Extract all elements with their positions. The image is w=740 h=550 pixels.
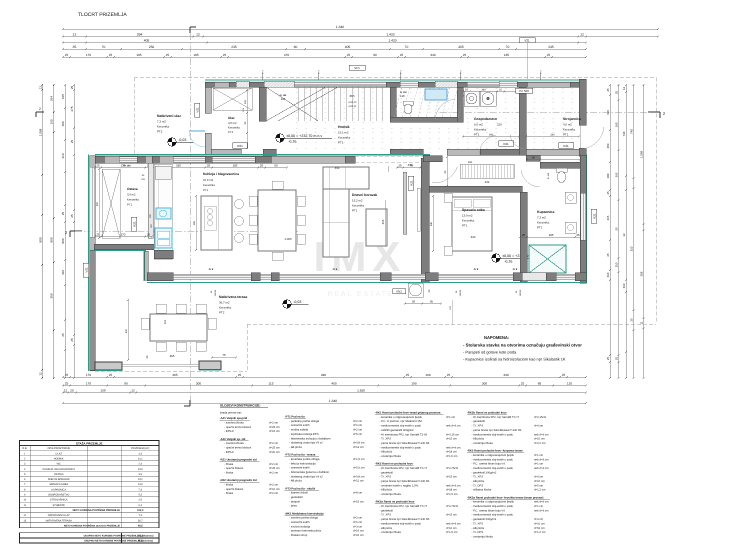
svg-text:25: 25 [260,163,264,167]
svg-text:-RK2 Ravni ne prohodni krov: -RK2 Ravni ne prohodni krov [375,463,413,466]
svg-text:- muštra zaštita: - muštra zaštita [289,429,308,432]
svg-text:- HI membrana FP2, npr Sarnafi: - HI membrana FP2, npr Sarnafil TS 77 [380,467,428,470]
svg-text:Kupaonica: Kupaonica [537,210,554,214]
svg-text:d=20 cm: d=20 cm [269,451,280,454]
svg-text:- završna podna obloga: - završna podna obloga [289,517,318,520]
svg-text:- geotekstil: - geotekstil [380,509,394,512]
svg-text:12: 12 [196,32,200,36]
terrace columns [95,362,122,370]
svg-text:800: 800 [50,237,54,242]
svg-text:- bitumenska izolacija s dodat: - bitumenska izolacija s dodatkom [289,437,331,440]
svg-text:d=2 cm: d=2 cm [353,517,363,520]
svg-text:PT2: PT2 [219,311,225,315]
svg-text:415: 415 [606,215,610,220]
svg-text:K21: K21 [592,213,596,219]
svg-text:6,4: 6,4 [139,504,143,507]
kitchen counter [154,164,172,259]
svg-text:Keramika: Keramika [352,204,365,208]
svg-text:- cementni estrih: - cementni estrih [289,424,310,427]
svg-text:d=5 cm: d=5 cm [353,433,363,436]
svg-text:25: 25 [562,373,566,377]
svg-text:d=2 cm: d=2 cm [353,429,363,432]
svg-text:Kuhinja i blagovaonica: Kuhinja i blagovaonica [203,172,239,176]
svg-text:d=0,15 cm: d=0,15 cm [446,433,460,436]
right dimension chains [609,85,611,378]
svg-text:170: 170 [86,381,91,385]
svg-text:- EPS-F: - EPS-F [224,430,234,433]
svg-text:-MK1 Međukatna konstrukcija: -MK1 Međukatna konstrukcija [285,512,324,515]
terrace table [150,314,207,341]
svg-text:46,5: 46,5 [138,524,143,527]
svg-text:PT1: PT1 [338,141,344,145]
svg-text:1.098: 1.098 [38,128,42,136]
washbasin cabinets [565,192,576,203]
svg-text:d=10 cm: d=10 cm [269,430,280,433]
level mark -0,03 [168,138,176,146]
svg-text:Keramika: Keramika [474,128,487,132]
svg-text:Izrada prema van:: Izrada prema van: [220,412,242,415]
svg-text:205/90: 205/90 [459,289,462,296]
svg-text:PT2: PT2 [228,130,234,134]
svg-text:170: 170 [86,53,91,57]
svg-text:4,5: 4,5 [139,499,143,502]
svg-text:Pn 520: Pn 520 [519,89,529,93]
svg-text:25: 25 [606,253,610,257]
svg-text:75: 75 [222,353,226,357]
ostava dim row [95,236,152,238]
svg-text:d=0,8 cm: d=0,8 cm [353,442,365,445]
west exterior wall [88,155,90,372]
svg-text:d=10 cm: d=10 cm [269,488,280,491]
svg-text:1.630: 1.630 [357,388,365,392]
svg-text:PT1: PT1 [537,226,543,230]
svg-text:- AB ploča: - AB ploča [380,527,393,530]
svg-text:- armirano betonska ploča: - armirano betonska ploča [289,530,321,533]
svg-text:OSTAVA: OSTAVA [54,473,64,476]
svg-text:d=12 cm: d=12 cm [353,446,364,449]
svg-text:300: 300 [482,381,487,385]
bedroom level mark [492,254,500,262]
svg-text:- T.I. XPS: - T.I. XPS [472,425,484,428]
svg-text:400: 400 [331,381,336,385]
svg-text:d=10 cm: d=10 cm [446,527,457,530]
svg-text:-AZ2 Vanjski sp. zid: -AZ2 Vanjski sp. zid [220,438,246,441]
svg-text:305: 305 [458,45,464,49]
svg-text:Dnevni boravak: Dnevni boravak [352,193,377,197]
svg-text:R.B.: R.B. [22,447,27,450]
svg-text:d=2 cm: d=2 cm [269,472,279,475]
svg-text:STUBIŠTE: STUBIŠTE [53,503,66,507]
svg-text:- Parapeti od gotove kote poda: - Parapeti od gotove kote poda [463,350,517,355]
svg-text:TLOCRT PRIZEMLJA: TLOCRT PRIZEMLJA [78,12,127,18]
svg-text:298: 298 [640,271,644,276]
ostava wardrobe X [102,169,120,238]
svg-text:170: 170 [86,373,91,377]
svg-text:d=4 cm: d=4 cm [534,425,544,428]
WC hatch [394,87,402,117]
kitchen island [201,196,232,250]
svg-text:PT1: PT1 [352,209,358,213]
svg-text:25: 25 [61,212,65,216]
svg-text:R21: R21 [237,144,243,148]
svg-text:1.420: 1.420 [386,32,394,36]
svg-text:101: 101 [449,305,452,310]
window tag V21 top [519,38,535,43]
wall spavaca/kupaonica [520,192,527,282]
svg-text:310: 310 [622,283,626,288]
svg-text:d=0,75cm: d=0,75cm [446,467,459,470]
svg-text:410: 410 [61,270,65,275]
svg-text:d=2 cm: d=2 cm [269,442,279,445]
svg-text:- žbuka: - žbuka [224,492,233,495]
svg-text:46,5: 46,5 [138,540,143,543]
svg-text:UKUPNO NETO KORISNE POVRŠINE: UKUPNO NETO KORISNE POVRŠINE PRIZEMLJE (… [84,539,153,543]
svg-text:340: 340 [430,221,433,226]
svg-text:25: 25 [238,373,242,377]
dining chairs [249,196,257,206]
svg-text:d=10 cm: d=10 cm [534,480,545,483]
svg-text:ULAZ: ULAZ [56,452,63,455]
svg-text:d=18 cm: d=18 cm [446,451,457,454]
svg-text:VF1: VF1 [354,66,360,70]
svg-text:190: 190 [606,110,610,115]
svg-text:310: 310 [630,246,634,251]
svg-text:-RK2 Ravni prohodni krov- funy: -RK2 Ravni prohodni krov- funyama terase [467,450,523,453]
svg-text:- T.I. XPS: - T.I. XPS [380,514,392,517]
svg-text:12: 12 [64,388,68,392]
K21 tag right [591,209,597,223]
svg-text:180: 180 [61,121,65,126]
svg-text:Hodnik: Hodnik [338,125,350,129]
svg-text:V21: V21 [84,267,88,273]
svg-text:d=2 cm: d=2 cm [269,483,279,486]
svg-text:Pr 8: Pr 8 [513,268,518,271]
svg-text:25: 25 [65,373,69,377]
top dimension chains [63,28,658,30]
svg-text:- AB ploča: - AB ploča [472,480,485,483]
svg-text:- keramika podna obloga: - keramika podna obloga [289,458,320,461]
svg-text:25: 25 [70,338,74,342]
svg-text:245: 245 [548,45,554,49]
svg-text:4,3: 4,3 [139,452,143,455]
svg-text:d=16 cm: d=16 cm [353,530,364,533]
svg-text:2: 2 [39,107,41,111]
svg-text:+232,02: +232,02 [348,105,357,108]
toilet [556,168,567,172]
svg-text:Keramika: Keramika [157,125,170,129]
svg-text:22,0 m2: 22,0 m2 [203,178,214,182]
section marker 1 top [189,27,191,33]
svg-text:±0,00 = +232,70 m.n.v: ±0,00 = +232,70 m.n.v [286,134,322,138]
oven (blue) [156,208,171,219]
svg-text:-0,03: -0,03 [293,300,301,304]
svg-text:Gospodarstvo: Gospodarstvo [474,117,497,121]
wall chunk west of bedroom hall [423,156,442,162]
east window [581,193,586,240]
svg-text:310: 310 [606,272,610,277]
svg-text:- međucementni sloj-estrih u p: - međucementni sloj-estrih u padu [472,433,514,436]
svg-text:Keramika: Keramika [219,306,232,310]
svg-text:470: 470 [284,53,289,57]
svg-text:250: 250 [149,45,155,49]
svg-text:4,0 m2: 4,0 m2 [228,121,237,125]
svg-text:170: 170 [121,232,126,236]
svg-text:- cementni estrih: - cementni estrih [289,521,310,524]
bedroom door arc [432,167,458,183]
svg-text:25: 25 [398,163,402,167]
mid dividing wall y155 [95,154,430,156]
svg-text:25: 25 [65,381,69,385]
svg-text:800: 800 [61,238,65,243]
svg-text:d=0,15cm: d=0,15cm [534,416,547,419]
svg-text:120: 120 [567,381,572,385]
svg-text:- međucementni sloj-estrih u p: - međucementni sloj-estrih u padu [472,458,514,461]
svg-text:neb d=4 cm: neb d=4 cm [446,522,461,525]
svg-text:- keramika u odgovarajućem lje: - keramika u odgovarajućem ljepilu [472,500,515,504]
svg-text:d=1,2 cm: d=1,2 cm [534,531,546,534]
svg-text:25: 25 [463,53,467,57]
svg-text:- opečni blokovi: - opečni blokovi [224,467,243,470]
svg-text:KUHINJA I BLAGOVAONICA: KUHINJA I BLAGOVAONICA [43,468,76,471]
svg-text:102,3: 102,3 [137,509,144,512]
terrace chairs [156,304,166,313]
svg-text:- unutarnja žbuka: - unutarnja žbuka [472,442,494,445]
svg-text:25: 25 [400,53,404,57]
svg-text:50: 50 [412,299,416,303]
bathroom dim row [520,236,581,238]
svg-text:25: 25 [615,91,619,95]
svg-text:10,1: 10,1 [138,457,143,460]
svg-text:ETAŽA PRIZEMLJE: ETAŽA PRIZEMLJE [76,441,102,445]
svg-text:Pr 6: Pr 6 [333,268,338,271]
svg-text:- međucementni sloj-estrih u p: - međucementni sloj-estrih u padu [380,446,422,449]
svg-text:- žbuka: - žbuka [224,463,233,466]
svg-text:185: 185 [233,163,238,167]
stairs treads [297,86,299,121]
cooktop circles [204,206,216,230]
kitchen dim row below wall [95,167,287,169]
svg-text:- unutarnja žbuka: - unutarnja žbuka [380,531,402,534]
svg-text:740: 740 [622,131,626,136]
svg-text:neb d=4 cm: neb d=4 cm [534,467,549,470]
svg-text:d=0,8 cm: d=0,8 cm [353,475,365,478]
svg-text:V21: V21 [195,107,199,113]
svg-text:740: 740 [630,129,634,134]
svg-text:K21: K21 [132,221,136,227]
svg-text:25: 25 [70,214,74,218]
svg-text:d=2 cm: d=2 cm [269,492,279,495]
section marker 1 bottom [189,400,191,406]
svg-text:205/90: 205/90 [519,289,522,296]
svg-text:- T.I. XPS: - T.I. XPS [472,522,484,525]
svg-text:- završna žbuka: - završna žbuka [224,422,244,425]
svg-text:d=4 cm: d=4 cm [534,518,544,521]
terrace parapet line [122,363,199,365]
svg-text:- kameni držači: - kameni držači [289,492,308,495]
level mark hodnik [276,134,284,142]
svg-text:d=2,0 cm: d=2,0 cm [534,442,546,445]
svg-text:- AB ploča: - AB ploča [380,489,393,492]
svg-text:6,0 m2: 6,0 m2 [474,123,483,127]
415 vertical dim [384,200,386,246]
svg-text:25: 25 [630,318,634,322]
svg-text:d=2 cm: d=2 cm [269,463,279,466]
svg-text:d=2 cm: d=2 cm [269,422,279,425]
fridge [155,166,171,179]
svg-text:115: 115 [244,99,247,104]
svg-text:4,5 m2: 4,5 m2 [563,123,572,127]
svg-text:1.005: 1.005 [284,237,292,241]
svg-text:25: 25 [65,53,69,57]
svg-text:2,4: 2,4 [139,463,143,466]
svg-text:d=15 cm: d=15 cm [446,438,457,441]
svg-text:d=10 cm: d=10 cm [534,522,545,525]
svg-text:25: 25 [347,53,351,57]
svg-text:d=25 cm: d=25 cm [269,467,280,470]
strojarnica door arc [510,134,524,149]
svg-text:12: 12 [622,233,626,237]
svg-text:Keramika: Keramika [127,198,139,202]
svg-text:d=1,5 cm: d=1,5 cm [446,455,458,458]
svg-text:d=15 cm: d=15 cm [446,514,457,517]
svg-text:185: 185 [176,163,181,167]
svg-text:23,9: 23,9 [138,468,143,471]
svg-text:170: 170 [121,163,126,167]
svg-text:neb d=4 cm: neb d=4 cm [446,484,461,487]
svg-text:HODNIK: HODNIK [54,457,64,460]
svg-text:190: 190 [411,381,416,385]
svg-text:- AB ploča: - AB ploča [472,438,485,441]
svg-text:d=25 cm: d=25 cm [269,447,280,450]
svg-text:- parna brana npr Sika Bitusea: - parna brana npr Sika Bituseal T-230 PA [380,442,430,445]
svg-text:220: 220 [497,123,502,127]
svg-text:- EPS-F: - EPS-F [224,451,234,454]
svg-text:- tampon: - tampon [289,500,300,503]
svg-text:-RK2a Ravni prohodni krov- kro: -RK2a Ravni prohodni krov- krovišta tera… [467,495,543,499]
wall block below counter [154,250,173,259]
svg-text:Keramika: Keramika [563,128,576,132]
svg-text:-RK2a Ravni ne prohodni krov: -RK2a Ravni ne prohodni krov [375,501,415,504]
wall dnevni/spavaca [421,158,429,282]
TV niche partition [403,172,407,234]
svg-text:90: 90 [373,53,377,57]
svg-text:neb d=4 cm: neb d=4 cm [534,433,549,436]
ostava east wall [148,163,153,238]
svg-text:440: 440 [408,163,413,167]
sink (blue) [155,228,172,248]
svg-text:310: 310 [615,262,619,267]
svg-text:410: 410 [125,328,128,333]
svg-text:d=1 cm: d=1 cm [446,416,456,419]
ulaz west wall [205,87,211,113]
svg-text:- opečni termo blokovi: - opečni termo blokovi [224,447,251,450]
svg-text:105: 105 [61,94,65,99]
svg-text:25: 25 [521,381,525,385]
svg-text:12: 12 [38,86,42,90]
svg-text:d=1,5 cm: d=1,5 cm [446,493,458,496]
svg-text:- završna žbuka: - završna žbuka [224,442,244,445]
svg-text:- AB ploča: - AB ploča [289,480,302,483]
svg-text:- parna brana npr Sika Bitusea: - parna brana npr Sika Bituseal T-230 PA [380,480,430,483]
svg-text:Keramika: Keramika [338,136,351,140]
svg-text:25: 25 [576,233,580,237]
svg-text:neb d=4 cm: neb d=4 cm [446,425,461,428]
svg-text:25: 25 [70,388,74,392]
svg-text:- zaštitni geotekstil 300g/m2: - zaštitni geotekstil 300g/m2 [380,429,415,432]
svg-text:- opečni termo blokovi: - opečni termo blokovi [224,426,251,429]
svg-text:- parketna podna obloga: - parketna podna obloga [289,420,319,423]
svg-text:185: 185 [504,53,509,57]
svg-text:25: 25 [109,373,113,377]
dims below boiler [405,303,441,305]
svg-text:d=6 cm: d=6 cm [353,521,363,524]
svg-text:25: 25 [96,163,100,167]
svg-text:200: 200 [96,201,99,206]
svg-text:d=52 cm: d=52 cm [534,527,545,530]
svg-text:- parna brana npr Sika Bitusea: - parna brana npr Sika Bituseal T-230 PA [380,518,430,521]
east exterior wall [586,155,588,284]
svg-text:neb d=4 cm: neb d=4 cm [446,446,461,449]
section line 2 horizontal [75,230,300,232]
svg-text:5,3: 5,3 [139,494,143,497]
svg-text:25: 25 [615,227,619,231]
svg-text:Spavaća soba: Spavaća soba [462,208,485,212]
svg-text:POVRŠINA(m2): POVRŠINA(m2) [131,446,149,450]
exterior wall north (with windows) [205,79,586,81]
svg-text:Keramika: Keramika [462,219,475,223]
svg-text:d=8 cm: d=8 cm [353,492,363,495]
svg-text:115: 115 [269,381,274,385]
svg-text:Keramika: Keramika [228,126,240,130]
TV board [417,188,420,231]
svg-text:25: 25 [447,373,451,377]
svg-text:100: 100 [425,373,430,377]
svg-text:- bitumenska (jezerna s dodtko: - bitumenska (jezerna s dodtkom [289,471,330,474]
svg-text:NATKRIVENA TERASA: NATKRIVENA TERASA [46,519,73,522]
svg-text:d=3 cm: d=3 cm [353,525,363,528]
svg-text:Pr 8: Pr 8 [474,268,479,271]
svg-text:365: 365 [170,354,175,358]
svg-text:340: 340 [503,373,508,377]
svg-text:d=10 cm: d=10 cm [534,438,545,441]
window tag VF1 [349,65,365,70]
svg-text:d=0,75cm: d=0,75cm [446,505,459,508]
svg-text:13,9: 13,9 [138,483,143,486]
svg-text:d=5 cm: d=5 cm [534,484,544,487]
svg-text:-PT1 Pod na tlu: -PT1 Pod na tlu [285,416,305,419]
svg-text:25: 25 [547,53,551,57]
svg-text:d=5,9 cm: d=5,9 cm [353,467,365,470]
svg-text:25: 25 [606,88,610,92]
svg-text:365: 365 [172,373,177,377]
ostava south wall [94,244,154,250]
svg-text:- T.I. XPS: - T.I. XPS [472,476,484,479]
svg-text:300: 300 [196,381,201,385]
svg-text:+232,70: +232,70 [348,101,357,104]
svg-text:-PT2 Pod na tlu - terasa: -PT2 Pod na tlu - terasa [285,454,316,457]
svg-text:25: 25 [147,232,151,236]
svg-text:25: 25 [109,53,113,57]
svg-text:Natkriveni ulaz: Natkriveni ulaz [157,114,181,118]
svg-text:340: 340 [430,53,435,57]
svg-text:d=1 cm: d=1 cm [534,505,544,508]
svg-text:65: 65 [430,299,434,303]
svg-text:d=15 cm: d=15 cm [446,476,457,479]
svg-text:12: 12 [622,87,626,91]
svg-text:- keramika u odgovarajućem lje: - keramika u odgovarajućem ljepilu [380,415,423,419]
svg-text:- T.I. DPS: - T.I. DPS [472,484,484,487]
dnevni dim row [397,167,426,169]
